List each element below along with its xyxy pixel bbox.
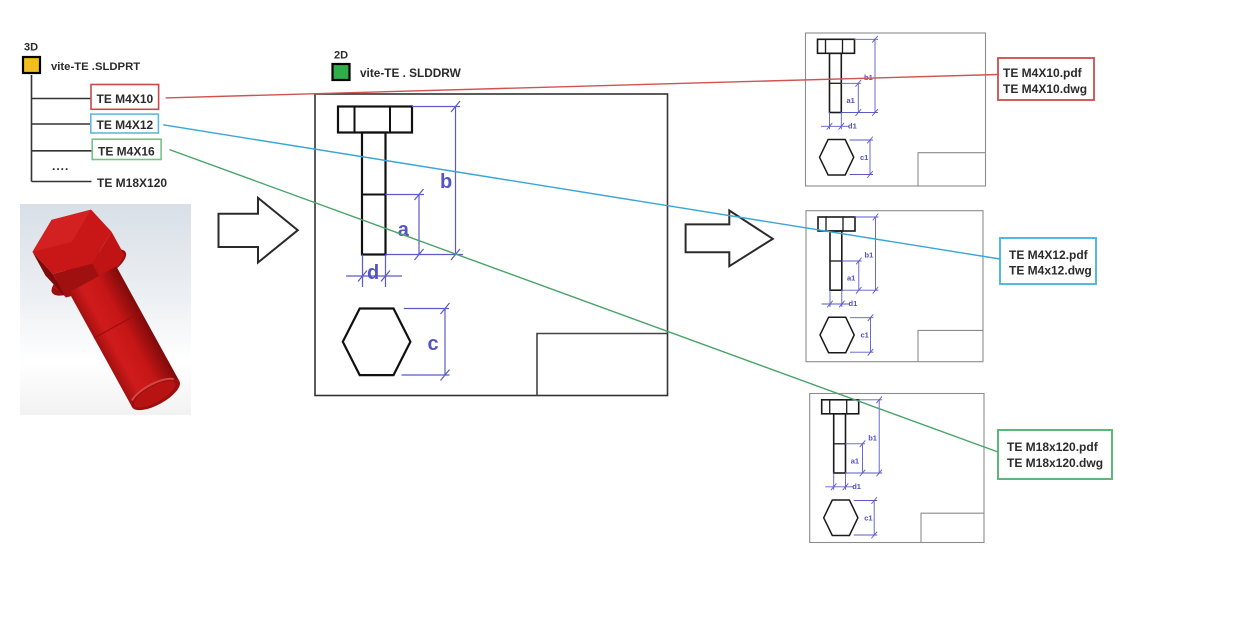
svg-text:TE M4X12.pdf: TE M4X12.pdf [1009,248,1089,262]
svg-text:c: c [428,333,439,355]
svg-text:TE M4X10.pdf: TE M4X10.pdf [1003,66,1083,80]
svg-text:a: a [398,219,410,241]
svg-text:vite-TE . SLDDRW: vite-TE . SLDDRW [360,66,462,80]
svg-text:3D: 3D [24,42,38,54]
svg-text:....: .... [52,159,69,173]
svg-text:2D: 2D [334,49,348,61]
svg-text:TE M4x12.dwg: TE M4x12.dwg [1009,264,1092,278]
svg-text:vite-TE .SLDPRT: vite-TE .SLDPRT [51,61,140,73]
svg-text:d: d [367,262,379,284]
svg-text:TE M4X10.dwg: TE M4X10.dwg [1003,82,1087,96]
svg-text:TE M4X16: TE M4X16 [98,144,155,158]
svg-text:b: b [440,171,452,193]
svg-text:TE M18X120: TE M18X120 [97,176,167,190]
svg-text:TE M4X12: TE M4X12 [97,118,154,132]
svg-text:TE M4X10: TE M4X10 [97,92,154,106]
svg-text:TE M18x120.pdf: TE M18x120.pdf [1007,440,1099,454]
svg-text:TE M18x120.dwg: TE M18x120.dwg [1007,456,1103,470]
